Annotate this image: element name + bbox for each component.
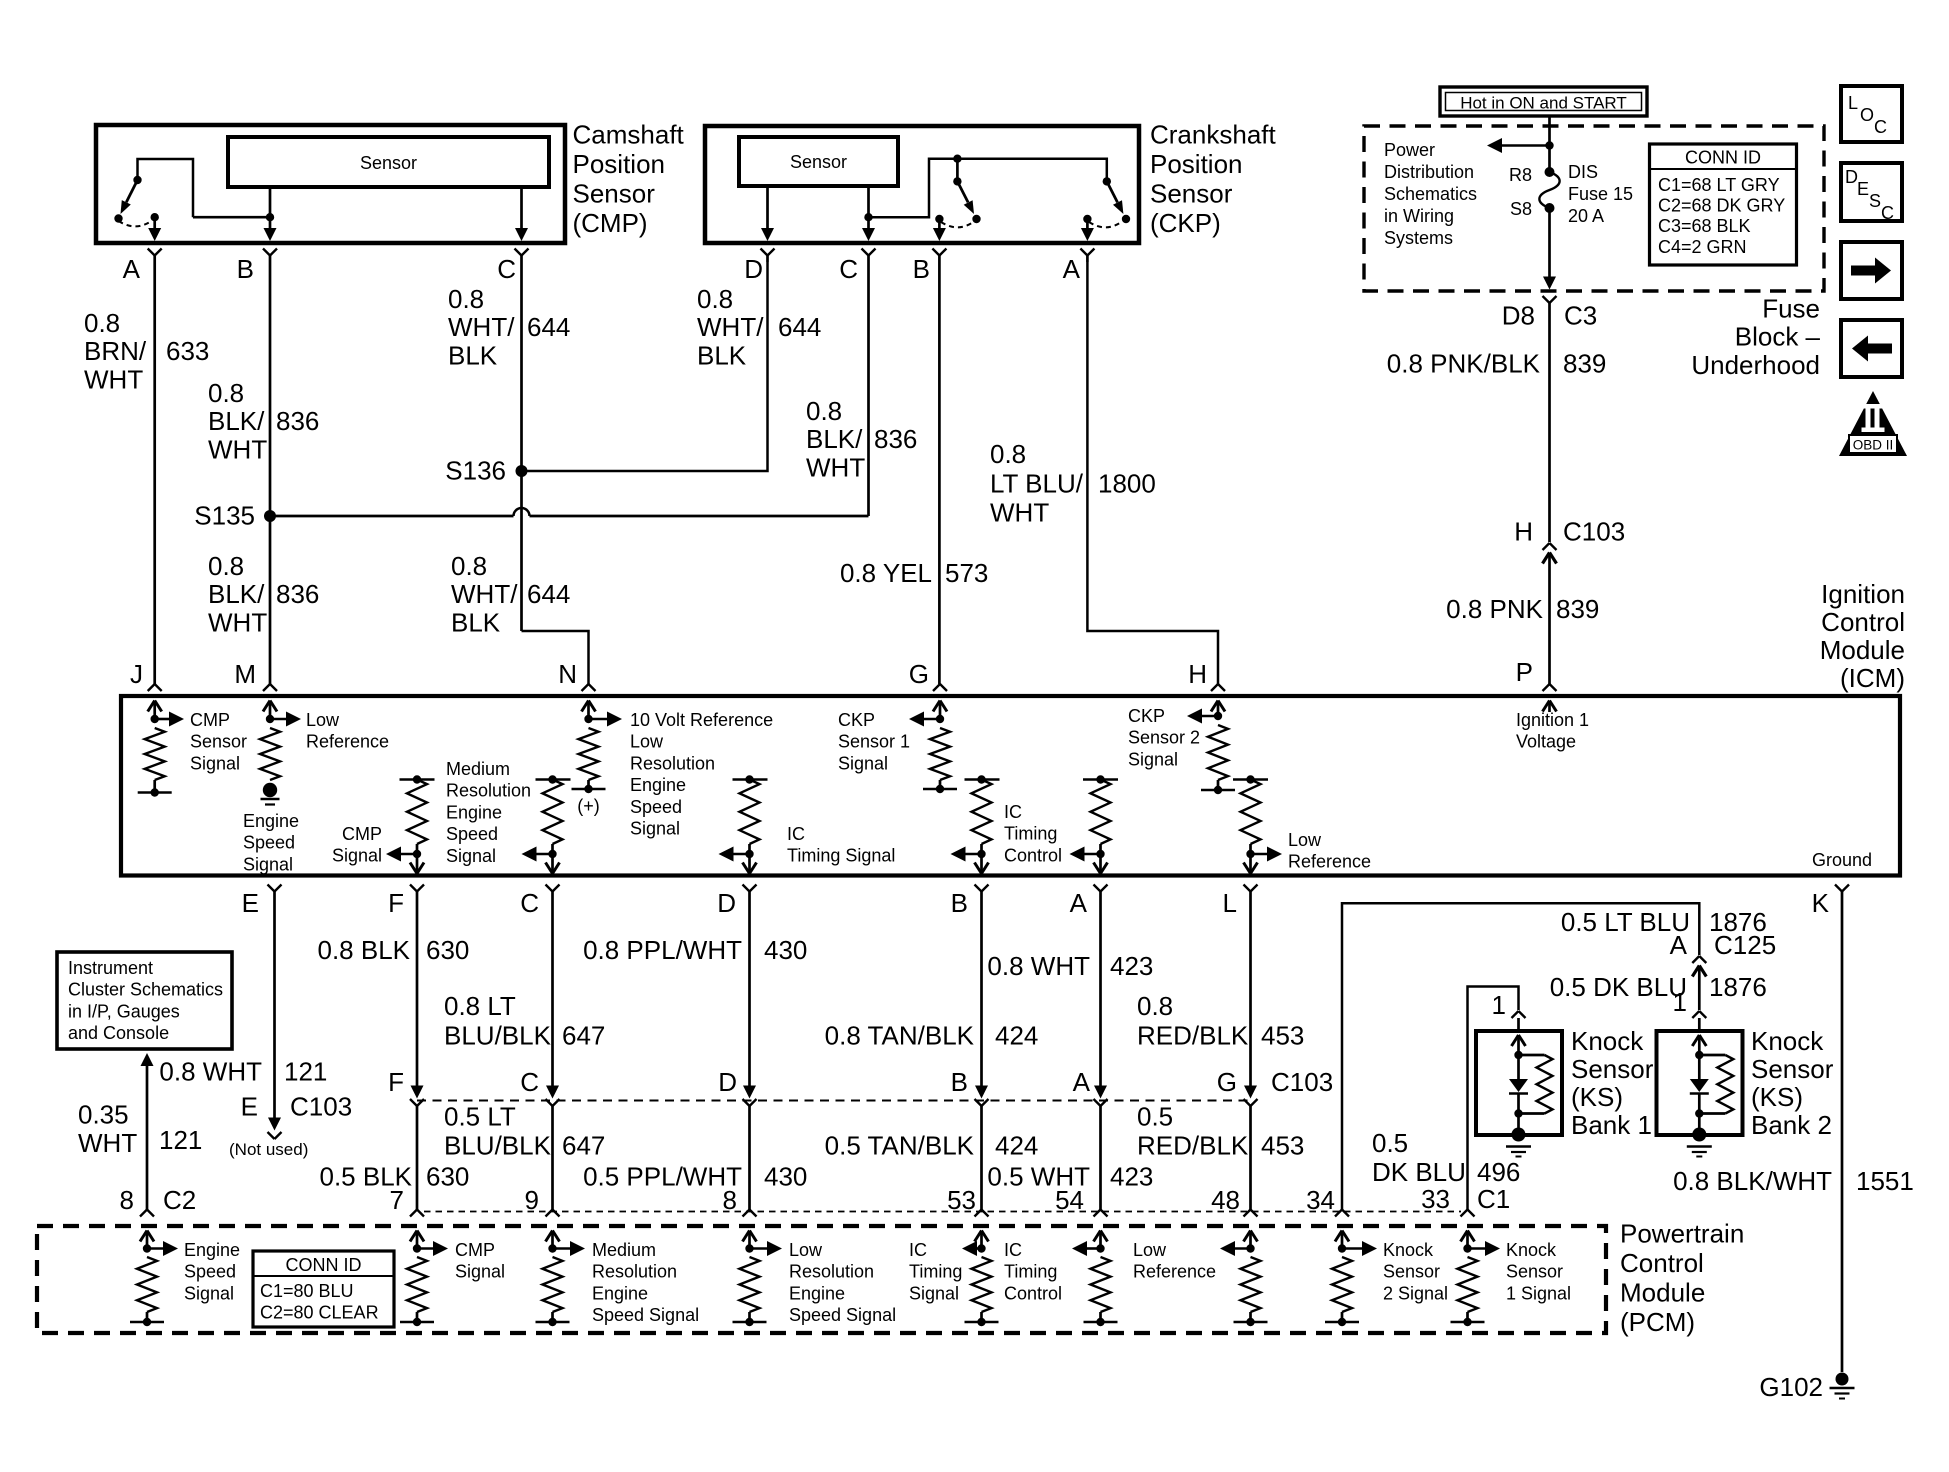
svg-text:Engine: Engine <box>789 1283 845 1303</box>
svg-text:Engine: Engine <box>630 775 686 795</box>
svg-text:RED/BLK: RED/BLK <box>1137 1021 1249 1051</box>
svg-text:Distribution: Distribution <box>1384 162 1474 182</box>
svg-text:BLK/: BLK/ <box>208 406 265 436</box>
svg-text:0.8 WHT: 0.8 WHT <box>987 951 1090 981</box>
engine speed signal ground symbol (ICM) <box>261 783 280 805</box>
svg-text:C4=2 GRN: C4=2 GRN <box>1658 237 1747 257</box>
svg-text:0.8: 0.8 <box>1137 991 1173 1021</box>
svg-text:L: L <box>1848 93 1858 113</box>
CMP pin A connector <box>148 249 162 263</box>
svg-text:BLU/BLK: BLU/BLK <box>444 1131 552 1161</box>
svg-text:0.5 TAN/BLK: 0.5 TAN/BLK <box>825 1131 975 1161</box>
wire fuse to D8 <box>1543 208 1556 290</box>
svg-text:54: 54 <box>1055 1185 1084 1215</box>
svg-text:Ground: Ground <box>1812 850 1872 870</box>
svg-text:C: C <box>520 1067 539 1097</box>
svg-text:1 Signal: 1 Signal <box>1506 1283 1571 1303</box>
label CMP Signal (ICM F) <box>332 824 382 866</box>
ICM pin P input (Ignition 1 Voltage) <box>1543 684 1557 712</box>
wire ICM D to PCM 8 (0.8 PPL/WHT 430 / 0.5) <box>743 898 757 1210</box>
svg-text:Reference: Reference <box>306 732 389 752</box>
wire S135 to CKP C with hop <box>270 262 869 516</box>
svg-text:121: 121 <box>284 1057 327 1087</box>
svg-text:423: 423 <box>1110 951 1153 981</box>
svg-text:0.8 YEL: 0.8 YEL <box>840 558 932 588</box>
svg-text:Speed: Speed <box>184 1262 236 1282</box>
PCM pin 54 (IC Timing Control) <box>1072 1210 1118 1327</box>
svg-text:Timing: Timing <box>909 1262 962 1282</box>
svg-text:C1: C1 <box>1477 1184 1510 1214</box>
svg-text:836: 836 <box>276 579 319 609</box>
CMP pin A internal wire <box>148 217 161 241</box>
svg-text:836: 836 <box>874 424 917 454</box>
wire CMP A to ICM J (0.8 BRN/WHT 633) <box>153 262 156 684</box>
svg-text:C: C <box>1874 117 1887 137</box>
svg-text:C125: C125 <box>1714 930 1776 960</box>
svg-text:573: 573 <box>945 558 988 588</box>
svg-text:453: 453 <box>1261 1021 1304 1051</box>
svg-text:(CKP): (CKP) <box>1150 208 1221 238</box>
svg-text:and Console: and Console <box>68 1023 169 1043</box>
svg-text:Voltage: Voltage <box>1516 732 1576 752</box>
svg-text:N: N <box>558 659 577 689</box>
svg-text:C: C <box>1881 203 1894 223</box>
icon right-arrow box <box>1841 242 1902 299</box>
svg-text:Sensor: Sensor <box>1571 1054 1654 1084</box>
svg-text:E: E <box>242 888 259 918</box>
CONN ID table (PCM) <box>253 1251 394 1327</box>
svg-text:1: 1 <box>1492 990 1506 1020</box>
crankshaft position sensor (CKP) outer box <box>705 126 1139 243</box>
svg-text:Signal: Signal <box>184 1283 234 1303</box>
wire fuse feed <box>1545 116 1553 172</box>
svg-text:Cluster Schematics: Cluster Schematics <box>68 980 223 1000</box>
svg-text:Knock: Knock <box>1506 1240 1557 1260</box>
ICM pin G input (CKP Sensor 1 Signal) <box>909 684 957 793</box>
label IC Timing Signal (ICM B) <box>787 824 895 866</box>
svg-text:D: D <box>717 888 736 918</box>
svg-text:DIS: DIS <box>1568 162 1598 182</box>
icon DESC box <box>1841 163 1902 223</box>
svg-text:Power: Power <box>1384 140 1435 160</box>
svg-text:Knock: Knock <box>1751 1026 1824 1056</box>
svg-text:9: 9 <box>525 1185 539 1215</box>
svg-text:Schematics: Schematics <box>1384 184 1477 204</box>
svg-text:(KS): (KS) <box>1571 1082 1623 1112</box>
svg-text:C1=80 BLU: C1=80 BLU <box>260 1281 354 1301</box>
svg-text:B: B <box>951 1067 968 1097</box>
svg-text:647: 647 <box>562 1021 605 1051</box>
svg-text:Knock: Knock <box>1571 1026 1644 1056</box>
CMP pin C internal wire <box>515 187 528 241</box>
svg-text:in I/P, Gauges: in I/P, Gauges <box>68 1001 180 1021</box>
svg-text:Sensor: Sensor <box>1751 1054 1834 1084</box>
svg-text:Signal: Signal <box>630 819 680 839</box>
svg-text:Engine: Engine <box>243 811 299 831</box>
PCM connector C1 dashed line <box>424 1211 1461 1213</box>
svg-text:647: 647 <box>562 1131 605 1161</box>
splice S136 <box>445 456 527 486</box>
label Fuse Block - Underhood <box>1691 294 1820 381</box>
ICM pin B output (IC Timing Signal) <box>951 775 1000 898</box>
svg-text:430: 430 <box>764 935 807 965</box>
PCM pin 9 (Medium Resolution) <box>536 1210 586 1327</box>
svg-text:Low: Low <box>789 1240 823 1260</box>
svg-text:Sensor: Sensor <box>1506 1262 1563 1282</box>
svg-text:CONN ID: CONN ID <box>286 1255 362 1275</box>
svg-text:Speed: Speed <box>630 797 682 817</box>
PCM pin 8/C2 (Engine Speed Signal) <box>130 1210 178 1327</box>
svg-text:Sensor: Sensor <box>1383 1262 1440 1282</box>
svg-text:A: A <box>1063 254 1081 284</box>
svg-text:L: L <box>1223 888 1237 918</box>
connector C103 dashed line <box>417 1100 1251 1102</box>
svg-text:A: A <box>1073 1067 1091 1097</box>
svg-text:G102: G102 <box>1759 1372 1823 1402</box>
svg-text:E: E <box>241 1091 258 1121</box>
CMP switch <box>114 159 193 226</box>
svg-text:Systems: Systems <box>1384 228 1453 248</box>
svg-text:A: A <box>1670 930 1688 960</box>
arrow to power distribution <box>1501 144 1550 147</box>
svg-text:K: K <box>1812 888 1830 918</box>
svg-text:0.8: 0.8 <box>448 284 484 314</box>
svg-text:1551: 1551 <box>1856 1166 1914 1196</box>
svg-text:Signal: Signal <box>446 846 496 866</box>
svg-text:S8: S8 <box>1510 199 1532 219</box>
svg-text:Fuse: Fuse <box>1762 294 1820 324</box>
svg-text:0.8: 0.8 <box>451 551 487 581</box>
svg-text:BLK/: BLK/ <box>208 579 265 609</box>
svg-text:D8: D8 <box>1502 301 1535 331</box>
svg-text:Engine: Engine <box>592 1283 648 1303</box>
CKP switch 1 (pin B) <box>933 155 981 242</box>
svg-text:Speed: Speed <box>446 824 498 844</box>
label 0.5 LT BLU/BLK <box>444 1101 552 1160</box>
CKP pin C internal wire <box>862 186 875 241</box>
knock sensor (KS) bank 1 <box>1476 1031 1562 1157</box>
svg-text:B: B <box>951 888 968 918</box>
ICM pin H input (CKP Sensor 2 Signal) <box>1187 684 1235 794</box>
svg-text:0.8 PNK: 0.8 PNK <box>1446 594 1543 624</box>
svg-text:BLU/BLK: BLU/BLK <box>444 1021 552 1051</box>
wire ICM B to PCM 53 (0.8 TAN/BLK 424 / 0.5) <box>975 898 989 1210</box>
svg-text:C: C <box>520 888 539 918</box>
ignition control module (ICM) box <box>121 696 1900 876</box>
svg-text:C2: C2 <box>163 1185 196 1215</box>
label 0.8 RED/BLK <box>1137 991 1249 1051</box>
svg-text:33: 33 <box>1421 1184 1450 1214</box>
ICM pin D output (Low Resolution) <box>719 775 768 898</box>
CMP pin C connector <box>515 249 529 263</box>
label 0.5 DK BLU (496) <box>1372 1128 1466 1187</box>
CMP pin B internal wire <box>193 187 277 241</box>
svg-text:Speed: Speed <box>243 833 295 853</box>
svg-text:A: A <box>123 254 141 284</box>
PCM pin 8 (Low Resolution) <box>733 1210 783 1327</box>
CMP internal sensor element box <box>228 137 549 187</box>
label 0.8 LT BLU/BLK <box>444 991 552 1051</box>
ICM pin E connector <box>268 885 282 899</box>
svg-text:Engine: Engine <box>446 802 502 822</box>
KS bank 2 pin connector <box>1692 1011 1706 1029</box>
power distribution dashed box <box>1364 126 1824 291</box>
svg-text:WHT: WHT <box>78 1128 137 1158</box>
wire ICM K to G102 (0.8 BLK/WHT 1551) <box>1841 898 1844 1372</box>
svg-text:C103: C103 <box>1563 517 1625 547</box>
ICM pin M input (Low Reference) <box>260 684 301 780</box>
svg-text:A: A <box>1070 888 1088 918</box>
svg-text:IC: IC <box>909 1240 927 1260</box>
svg-text:CKP: CKP <box>1128 706 1165 726</box>
svg-text:Resolution: Resolution <box>592 1262 677 1282</box>
svg-text:S136: S136 <box>445 456 506 486</box>
svg-text:IC: IC <box>1004 802 1022 822</box>
svg-text:CONN ID: CONN ID <box>1685 148 1761 168</box>
label 0.5 RED/BLK <box>1137 1101 1249 1160</box>
svg-text:Sensor: Sensor <box>190 732 247 752</box>
KS bank 1 pin connector <box>1512 1011 1526 1029</box>
svg-text:M: M <box>234 659 256 689</box>
knock sensor (KS) bank 2 <box>1657 1031 1743 1157</box>
ICM pin F output (CMP Signal) <box>386 775 435 898</box>
svg-text:8: 8 <box>120 1185 134 1215</box>
svg-text:0.8: 0.8 <box>84 308 120 338</box>
svg-text:Fuse 15: Fuse 15 <box>1568 184 1633 204</box>
wire CMP C down (0.8 WHT/BLK 644) <box>520 262 523 631</box>
CKP internal sensor element box <box>739 137 898 186</box>
wire CKP A to ICM H (0.8 LT BLU/WHT 1800) <box>1087 262 1218 684</box>
svg-text:Hot in ON and START: Hot in ON and START <box>1460 94 1627 113</box>
svg-text:D: D <box>744 254 763 284</box>
svg-text:Speed Signal: Speed Signal <box>592 1305 699 1325</box>
wire ICM A to PCM 54 (0.8 WHT 423 / 0.5 WHT 423) <box>1094 898 1108 1210</box>
svg-text:Sensor: Sensor <box>360 153 417 173</box>
icon left-arrow box <box>1841 320 1902 377</box>
svg-text:0.8: 0.8 <box>208 378 244 408</box>
svg-text:630: 630 <box>426 935 469 965</box>
svg-text:Reference: Reference <box>1288 852 1371 872</box>
svg-text:Sensor: Sensor <box>790 152 847 172</box>
wire jog into ICM N <box>522 631 589 684</box>
ground G102 <box>1836 1373 1849 1386</box>
svg-text:430: 430 <box>764 1162 807 1192</box>
svg-text:WHT: WHT <box>208 607 267 637</box>
CKP pin A connector <box>1080 249 1094 263</box>
svg-text:Engine: Engine <box>184 1240 240 1260</box>
svg-text:Instrument: Instrument <box>68 958 153 978</box>
svg-text:Signal: Signal <box>332 846 382 866</box>
svg-text:(PCM): (PCM) <box>1620 1307 1695 1337</box>
icon OBD II triangle <box>1839 391 1907 456</box>
svg-text:630: 630 <box>426 1162 469 1192</box>
svg-text:34: 34 <box>1306 1185 1335 1215</box>
svg-text:0.5 LT: 0.5 LT <box>444 1101 516 1131</box>
svg-text:(ICM): (ICM) <box>1840 663 1905 693</box>
svg-text:836: 836 <box>276 406 319 436</box>
svg-text:Signal: Signal <box>190 753 240 773</box>
svg-text:P: P <box>1516 657 1533 687</box>
svg-text:F: F <box>388 888 404 918</box>
svg-text:496: 496 <box>1477 1157 1520 1187</box>
svg-text:WHT/: WHT/ <box>697 312 764 342</box>
svg-text:8: 8 <box>723 1185 737 1215</box>
svg-text:644: 644 <box>527 579 570 609</box>
ICM pin C output (Medium Resolution) <box>522 775 571 898</box>
svg-text:F: F <box>388 1067 404 1097</box>
svg-text:Module: Module <box>1620 1278 1705 1308</box>
svg-text:Reference: Reference <box>1133 1262 1216 1282</box>
svg-text:S135: S135 <box>194 501 255 531</box>
svg-text:(CMP): (CMP) <box>573 208 648 238</box>
svg-text:Timing: Timing <box>1004 1262 1057 1282</box>
svg-text:Camshaft: Camshaft <box>573 119 685 149</box>
CKP pin B connector <box>932 249 946 263</box>
svg-text:C3: C3 <box>1564 301 1597 331</box>
svg-text:48: 48 <box>1211 1185 1240 1215</box>
svg-text:0.5 DK BLU: 0.5 DK BLU <box>1550 972 1687 1002</box>
svg-text:WHT: WHT <box>990 498 1049 528</box>
wire ICM L to PCM 48 (0.8 RED/BLK 453 / 0.5) <box>1244 898 1258 1210</box>
svg-text:453: 453 <box>1261 1131 1304 1161</box>
svg-text:RED/BLK: RED/BLK <box>1137 1131 1249 1161</box>
svg-text:Bank 1: Bank 1 <box>1571 1110 1652 1140</box>
svg-text:53: 53 <box>947 1185 976 1215</box>
svg-text:839: 839 <box>1563 349 1606 379</box>
svg-text:WHT: WHT <box>208 434 267 464</box>
wire PCM 34 to knock sensor bank 2 <box>1342 903 1699 1209</box>
svg-text:Signal: Signal <box>455 1262 505 1282</box>
svg-text:C: C <box>839 254 858 284</box>
CKP pin C connector <box>862 249 876 263</box>
svg-text:Timing Signal: Timing Signal <box>787 846 895 866</box>
svg-text:0.8: 0.8 <box>806 396 842 426</box>
svg-text:C103: C103 <box>1271 1067 1333 1097</box>
svg-text:839: 839 <box>1556 594 1599 624</box>
svg-text:Signal: Signal <box>243 854 293 874</box>
svg-text:7: 7 <box>390 1185 404 1215</box>
svg-text:1876: 1876 <box>1709 972 1767 1002</box>
icon LOC box <box>1841 86 1902 142</box>
svg-text:0.8 WHT: 0.8 WHT <box>159 1057 262 1087</box>
CKP switch 2 (pin A) <box>1081 177 1130 241</box>
svg-text:Powertrain: Powertrain <box>1620 1218 1744 1248</box>
label 0.35 WHT <box>78 1100 137 1158</box>
svg-text:1800: 1800 <box>1098 469 1156 499</box>
fuse DIS Fuse 15 20 A <box>1539 167 1559 213</box>
svg-text:423: 423 <box>1110 1162 1153 1192</box>
svg-text:C2=68 DK GRY: C2=68 DK GRY <box>1658 196 1785 216</box>
svg-text:Control: Control <box>1004 845 1062 865</box>
svg-text:Block –: Block – <box>1735 322 1821 352</box>
svg-text:Module: Module <box>1820 635 1905 665</box>
svg-text:BLK: BLK <box>451 607 501 637</box>
CKP internal link wire <box>869 159 1107 218</box>
svg-text:E: E <box>1857 179 1869 199</box>
splice S135 <box>194 501 276 531</box>
svg-text:Signal: Signal <box>1128 749 1178 769</box>
svg-text:LT BLU/: LT BLU/ <box>990 468 1084 498</box>
PCM pin 7 (CMP Signal) <box>400 1210 448 1327</box>
wire CKP B to ICM G (0.8 YEL 573) <box>938 262 941 684</box>
svg-text:J: J <box>130 659 143 689</box>
svg-text:BLK: BLK <box>448 340 498 370</box>
svg-text:Speed Signal: Speed Signal <box>789 1305 896 1325</box>
svg-text:IC: IC <box>787 824 805 844</box>
svg-text:WHT/: WHT/ <box>448 312 515 342</box>
wire D8 to C103 H (0.8 PNK/BLK 839) <box>1548 310 1551 542</box>
svg-text:G: G <box>1217 1067 1237 1097</box>
svg-text:H: H <box>1188 659 1207 689</box>
svg-text:Crankshaft: Crankshaft <box>1150 119 1276 149</box>
svg-text:10 Volt Reference: 10 Volt Reference <box>630 710 773 730</box>
ICM pin K connector <box>1835 885 1849 899</box>
label Ignition Control Module (ICM) <box>1820 579 1905 693</box>
CMP pin B connector <box>263 249 277 263</box>
instrument cluster schematics box <box>57 952 232 1049</box>
svg-text:0.5 PPL/WHT: 0.5 PPL/WHT <box>583 1162 742 1192</box>
svg-text:B: B <box>913 254 930 284</box>
svg-text:Resolution: Resolution <box>446 781 531 801</box>
svg-text:Control: Control <box>1620 1248 1704 1278</box>
svg-text:633: 633 <box>166 336 209 366</box>
camshaft position sensor (CMP) outer box <box>96 125 565 243</box>
svg-text:WHT: WHT <box>806 452 865 482</box>
connector A/C125 <box>1692 956 1706 1010</box>
svg-text:Sensor: Sensor <box>1150 179 1233 209</box>
wire CMP B to ICM M (0.8 BLK/WHT 836) <box>269 262 272 684</box>
svg-text:Underhood: Underhood <box>1691 350 1820 380</box>
svg-text:644: 644 <box>778 312 821 342</box>
ICM pin A output (IC Timing Control) <box>1070 775 1119 898</box>
ICM pin N input (10 Volt Reference) <box>572 684 623 793</box>
svg-text:0.8 TAN/BLK: 0.8 TAN/BLK <box>825 1021 975 1051</box>
svg-text:(KS): (KS) <box>1751 1082 1803 1112</box>
svg-text:D: D <box>718 1067 737 1097</box>
svg-text:CMP: CMP <box>342 824 382 844</box>
CONN ID table (fuse block) <box>1650 144 1797 265</box>
svg-text:1: 1 <box>1673 987 1687 1017</box>
CKP pin D connector <box>761 249 775 263</box>
svg-text:Medium: Medium <box>446 759 510 779</box>
wire ICM F to PCM 7 (0.8 BLK 630 / 0.5 BLK 630) <box>410 898 424 1210</box>
wire ICM E down (0.8 WHT 121, not used) <box>268 898 282 1139</box>
PCM pin 33 (Knock Sensor 1 Signal) <box>1451 1210 1501 1327</box>
wire ICM C to PCM 9 (0.8 LT BLU/BLK 647 / 0.5) <box>546 898 560 1210</box>
svg-text:WHT/: WHT/ <box>451 579 518 609</box>
svg-text:C: C <box>497 254 516 284</box>
svg-text:0.8 PPL/WHT: 0.8 PPL/WHT <box>583 935 742 965</box>
ICM pin J input (CMP Sensor Signal) <box>138 684 184 797</box>
svg-text:Control: Control <box>1004 1283 1062 1303</box>
svg-text:R8: R8 <box>1509 165 1532 185</box>
arrow to instrument cluster <box>141 1053 154 1210</box>
svg-text:BLK: BLK <box>697 340 747 370</box>
svg-text:OBD II: OBD II <box>1853 438 1894 453</box>
svg-text:CMP: CMP <box>190 710 230 730</box>
PCM pin 34 (Knock Sensor 2 Signal) <box>1325 1210 1377 1327</box>
svg-text:Knock: Knock <box>1383 1240 1434 1260</box>
svg-text:0.8 LT: 0.8 LT <box>444 991 516 1021</box>
svg-text:Sensor 1: Sensor 1 <box>838 732 910 752</box>
PCM pin 53 (IC Timing Signal) <box>962 1210 999 1327</box>
svg-text:Signal: Signal <box>909 1283 959 1303</box>
svg-text:C3=68 BLK: C3=68 BLK <box>1658 216 1751 236</box>
svg-text:Low: Low <box>630 732 664 752</box>
svg-text:C103: C103 <box>290 1091 352 1121</box>
svg-text:G: G <box>909 659 929 689</box>
svg-text:0.8 BLK/WHT: 0.8 BLK/WHT <box>1673 1166 1832 1196</box>
